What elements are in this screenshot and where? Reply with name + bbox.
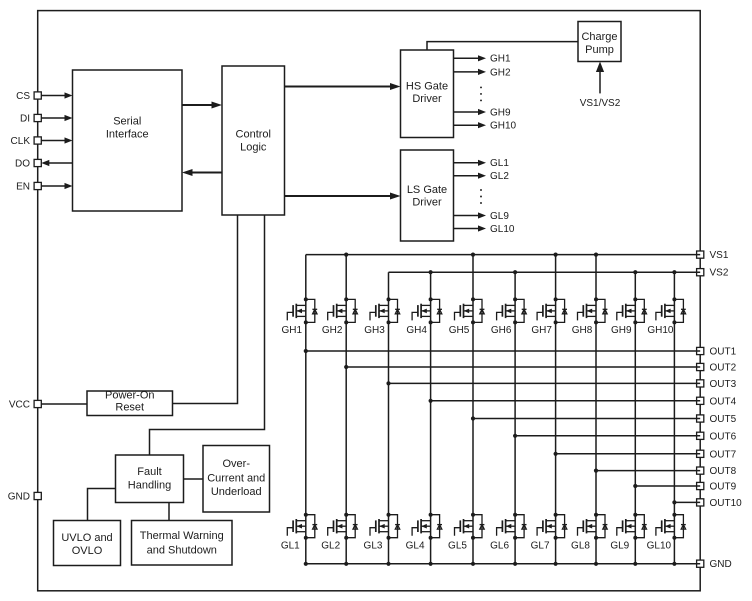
svg-text:GL4: GL4 <box>406 540 425 551</box>
svg-text:VS1/VS2: VS1/VS2 <box>580 98 621 109</box>
svg-text:OUT1: OUT1 <box>710 347 737 358</box>
svg-text:VCC: VCC <box>9 399 30 410</box>
svg-text:EN: EN <box>16 181 30 192</box>
svg-text:UVLO and: UVLO and <box>61 532 112 544</box>
svg-text:GL2: GL2 <box>490 171 509 182</box>
svg-text:OUT6: OUT6 <box>710 431 737 442</box>
svg-text:Driver: Driver <box>412 197 442 209</box>
svg-text:Handling: Handling <box>128 480 171 492</box>
svg-text:DO: DO <box>15 158 30 169</box>
svg-text:and Shutdown: and Shutdown <box>147 544 217 556</box>
svg-text:Interface: Interface <box>106 128 149 140</box>
svg-text:GH10: GH10 <box>647 325 674 336</box>
svg-text:GL2: GL2 <box>321 540 340 551</box>
svg-text:OUT4: OUT4 <box>710 396 737 407</box>
svg-text:OUT7: OUT7 <box>710 449 737 460</box>
svg-text:GH8: GH8 <box>572 325 593 336</box>
svg-text:OUT3: OUT3 <box>710 379 737 390</box>
svg-text:Thermal Warning: Thermal Warning <box>140 530 224 542</box>
svg-text:Fault: Fault <box>137 466 161 478</box>
svg-text:Power-On: Power-On <box>105 390 155 402</box>
svg-text:DI: DI <box>20 113 30 124</box>
svg-text:Over-: Over- <box>223 458 251 470</box>
svg-text:VS2: VS2 <box>710 268 729 279</box>
svg-text:GL10: GL10 <box>490 224 515 235</box>
svg-text:GND: GND <box>710 559 732 570</box>
svg-text:GH9: GH9 <box>611 325 632 336</box>
svg-text:GL10: GL10 <box>647 540 672 551</box>
svg-text:GL3: GL3 <box>364 540 383 551</box>
svg-text:GL1: GL1 <box>281 540 300 551</box>
svg-text:HS Gate: HS Gate <box>406 80 448 92</box>
svg-text:OVLO: OVLO <box>72 545 103 557</box>
svg-text:GH1: GH1 <box>490 54 511 65</box>
svg-text:OUT5: OUT5 <box>710 414 737 425</box>
svg-text:GL9: GL9 <box>610 540 629 551</box>
svg-text:GH7: GH7 <box>531 325 552 336</box>
svg-text:CLK: CLK <box>11 136 31 147</box>
svg-text:OUT10: OUT10 <box>710 498 743 509</box>
svg-text:GH3: GH3 <box>364 325 385 336</box>
svg-text:GL8: GL8 <box>571 540 590 551</box>
svg-text:LS Gate: LS Gate <box>407 184 447 196</box>
svg-text:GH1: GH1 <box>282 325 303 336</box>
svg-text:OUT8: OUT8 <box>710 466 737 477</box>
svg-text:GH10: GH10 <box>490 121 517 132</box>
svg-text:GH9: GH9 <box>490 107 511 118</box>
svg-text:GH2: GH2 <box>322 325 343 336</box>
svg-text:CS: CS <box>16 91 30 102</box>
svg-text:Pump: Pump <box>585 44 614 56</box>
svg-text:VS1: VS1 <box>710 250 729 261</box>
svg-text:GH4: GH4 <box>406 325 427 336</box>
svg-text:Underload: Underload <box>211 486 262 498</box>
svg-text:Driver: Driver <box>412 93 442 105</box>
svg-text:Logic: Logic <box>240 142 267 154</box>
svg-text:OUT9: OUT9 <box>710 482 737 493</box>
svg-text:GL6: GL6 <box>490 540 509 551</box>
svg-text:Reset: Reset <box>115 402 144 414</box>
svg-text:Control: Control <box>236 129 271 141</box>
svg-text:Serial: Serial <box>113 116 141 128</box>
svg-text:OUT2: OUT2 <box>710 363 737 374</box>
svg-text:GL9: GL9 <box>490 211 509 222</box>
svg-text:GH5: GH5 <box>449 325 470 336</box>
svg-text:Current and: Current and <box>207 473 265 485</box>
svg-text:GND: GND <box>8 491 30 502</box>
svg-text:GL7: GL7 <box>531 540 550 551</box>
svg-text:GH6: GH6 <box>491 325 512 336</box>
svg-text:GL5: GL5 <box>448 540 467 551</box>
svg-text:GH2: GH2 <box>490 67 511 78</box>
svg-text:GL1: GL1 <box>490 158 509 169</box>
svg-text:Charge: Charge <box>581 31 617 43</box>
